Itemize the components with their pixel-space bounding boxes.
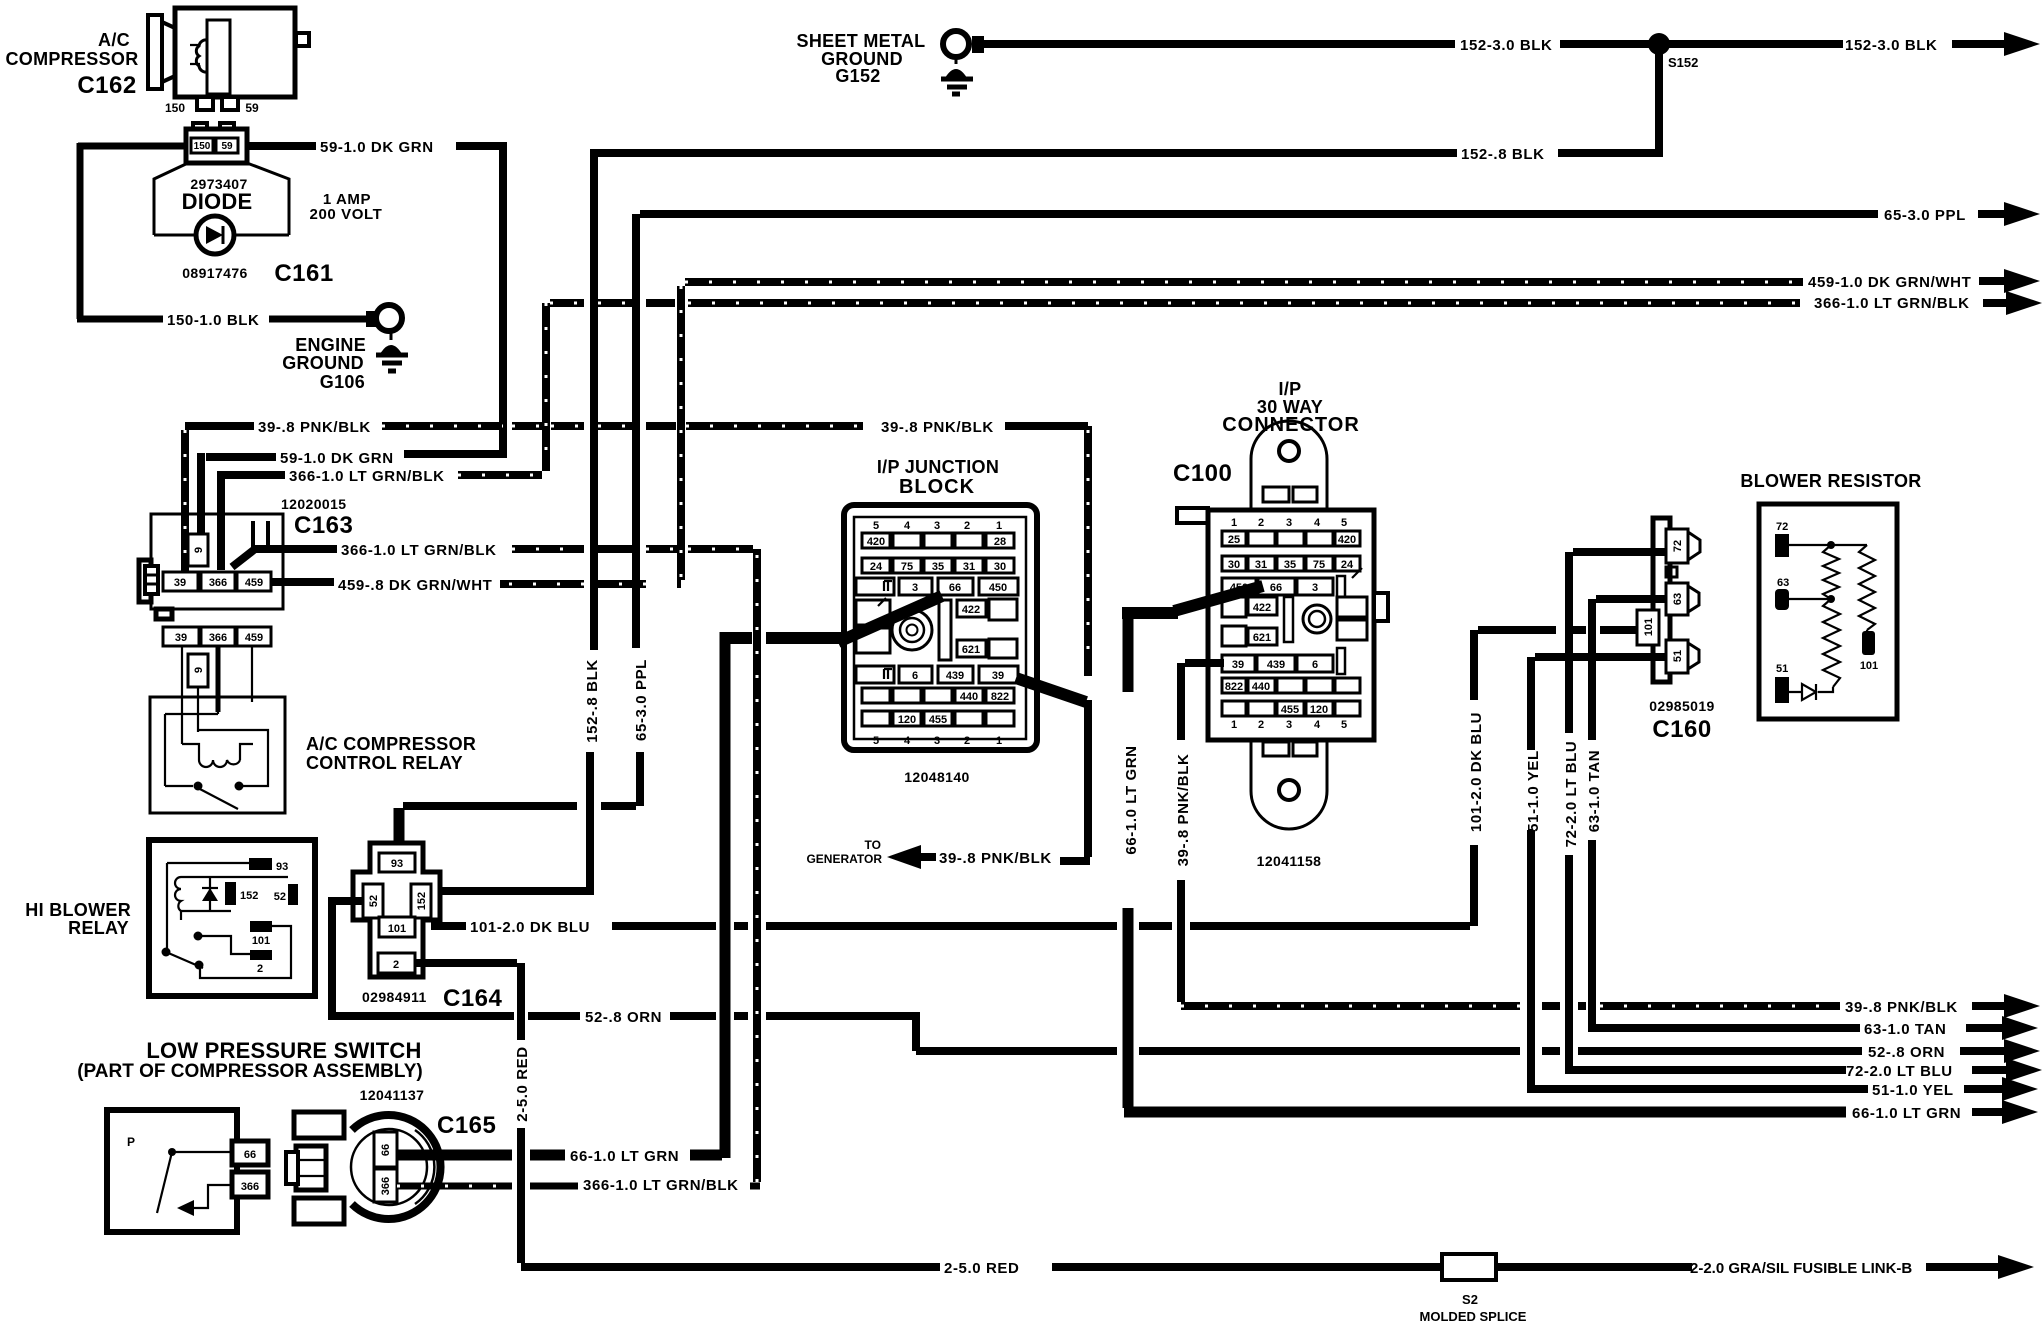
svg-text:52-.8 ORN: 52-.8 ORN	[1868, 1044, 1945, 1061]
splice S2 molded splice	[1442, 1254, 1496, 1280]
svg-text:9: 9	[193, 667, 205, 673]
wire 39 from C100 pin	[1181, 663, 1224, 1002]
svg-text:30: 30	[994, 561, 1006, 573]
svg-text:366: 366	[241, 1181, 259, 1193]
wire 152-.8 BLK	[433, 44, 1663, 891]
C163 mating half pin 459	[237, 627, 271, 646]
svg-text:366: 366	[209, 632, 227, 644]
svg-text:459: 459	[245, 577, 263, 589]
svg-text:101: 101	[388, 923, 406, 935]
C100 fuse row C	[1222, 568, 1362, 606]
svg-text:440: 440	[1252, 681, 1270, 693]
svg-text:2-5.0 RED: 2-5.0 RED	[944, 1260, 1019, 1277]
C100 column numbers bottom	[1231, 719, 1347, 731]
svg-text:366: 366	[380, 1177, 392, 1195]
svg-text:93: 93	[276, 861, 288, 873]
wire 59-1.0 DK GRN from C161	[201, 142, 507, 536]
svg-text:51-1.0 YEL: 51-1.0 YEL	[1872, 1082, 1954, 1099]
svg-text:RELAY: RELAY	[68, 918, 129, 938]
svg-text:93: 93	[391, 858, 403, 870]
svg-text:51: 51	[1672, 650, 1684, 662]
HI blower relay internals	[162, 858, 299, 978]
svg-text:25: 25	[1228, 534, 1240, 546]
svg-text:HI BLOWER: HI BLOWER	[25, 900, 131, 920]
arrow 52-.8 ORN	[2004, 1039, 2040, 1063]
svg-text:28: 28	[994, 536, 1006, 548]
svg-text:2: 2	[393, 959, 399, 971]
junction block middle section	[856, 598, 1017, 660]
svg-text:439: 439	[1267, 659, 1285, 671]
C100 fuse row A	[1222, 531, 1360, 546]
svg-text:1: 1	[996, 735, 1002, 747]
wire 72-2.0 LT BLU	[1565, 552, 1846, 1070]
junction block column numbers top	[873, 520, 1002, 532]
svg-text:65-3.0 PPL: 65-3.0 PPL	[1884, 207, 1966, 224]
svg-text:420: 420	[1338, 534, 1356, 546]
svg-text:MOLDED SPLICE: MOLDED SPLICE	[1420, 1309, 1527, 1324]
C100 middle section	[1222, 597, 1367, 646]
svg-text:39: 39	[175, 632, 187, 644]
svg-text:51: 51	[1776, 663, 1788, 675]
svg-text:59-1.0 DK GRN: 59-1.0 DK GRN	[280, 450, 394, 467]
wire 366-1.0 LT GRN/BLK from C165	[397, 1183, 760, 1190]
wire 150 to ring terminal	[269, 316, 370, 323]
wire 459-.8 DK GRN/WHT at C163	[271, 578, 334, 586]
svg-text:C164: C164	[443, 985, 503, 1012]
svg-text:440: 440	[960, 691, 978, 703]
svg-text:C163: C163	[294, 512, 353, 539]
svg-text:9: 9	[193, 547, 205, 553]
wire 459-1.0 DK GRN/WHT (top run)	[500, 282, 1803, 584]
junction block fuse row D	[856, 666, 1018, 683]
svg-text:CONNECTOR: CONNECTOR	[1222, 414, 1360, 436]
svg-text:150-1.0 BLK: 150-1.0 BLK	[167, 312, 259, 329]
svg-text:02984911: 02984911	[362, 989, 427, 1005]
svg-text:152-3.0 BLK: 152-3.0 BLK	[1845, 37, 1937, 54]
C163 pin 459	[237, 572, 271, 591]
connector C100 top tab	[1251, 421, 1327, 512]
arrow 2-2.0 GRA/SIL	[1998, 1255, 2034, 1279]
wire 39 out of junction block	[1016, 678, 1086, 702]
svg-text:1: 1	[1231, 719, 1237, 731]
svg-text:72-2.0 LT BLU: 72-2.0 LT BLU	[1563, 741, 1580, 848]
svg-text:200 VOLT: 200 VOLT	[310, 206, 383, 223]
svg-text:101-2.0 DK BLU: 101-2.0 DK BLU	[1468, 712, 1485, 832]
svg-text:C161: C161	[274, 260, 333, 287]
A/C compressor control relay box	[150, 697, 285, 813]
svg-text:39: 39	[992, 670, 1004, 682]
svg-text:59: 59	[245, 101, 259, 115]
svg-text:621: 621	[962, 644, 980, 656]
diode 2973407 C161	[154, 163, 382, 287]
svg-text:101-2.0 DK BLU: 101-2.0 DK BLU	[470, 919, 590, 936]
svg-text:BLOCK: BLOCK	[899, 476, 975, 498]
svg-text:420: 420	[867, 536, 885, 548]
svg-text:39-.8 PNK/BLK: 39-.8 PNK/BLK	[939, 850, 1052, 867]
svg-text:1: 1	[996, 520, 1002, 532]
svg-text:4: 4	[1314, 719, 1321, 731]
svg-text:63-1.0 TAN: 63-1.0 TAN	[1864, 1021, 1946, 1038]
svg-text:31: 31	[963, 561, 975, 573]
svg-text:ENGINE: ENGINE	[295, 335, 366, 355]
svg-text:C162: C162	[77, 72, 136, 99]
sheet metal ground G152 symbol	[941, 57, 973, 94]
low pressure switch pin 66	[232, 1141, 268, 1165]
svg-text:I/P JUNCTION: I/P JUNCTION	[877, 457, 999, 477]
svg-text:152-.8 BLK: 152-.8 BLK	[584, 659, 601, 743]
C100 fuse row E	[1222, 678, 1360, 693]
svg-text:3: 3	[912, 582, 918, 594]
svg-text:120: 120	[898, 714, 916, 726]
svg-text:455: 455	[1281, 704, 1299, 716]
svg-text:12048140: 12048140	[904, 769, 970, 785]
connector C163 housing	[139, 514, 283, 619]
svg-text:101: 101	[1643, 618, 1655, 636]
svg-text:2: 2	[1258, 719, 1264, 731]
C100 fuse row D	[1222, 648, 1345, 674]
junction block fuse row E	[862, 688, 1014, 703]
wire 39-.8 PNK/BLK (top run)	[185, 426, 1088, 676]
svg-text:366: 366	[209, 577, 227, 589]
svg-text:152-3.0 BLK: 152-3.0 BLK	[1460, 37, 1552, 54]
svg-text:02985019: 02985019	[1649, 698, 1715, 714]
arrow 152-3.0 BLK	[2004, 32, 2040, 56]
C100 fuse row B	[1222, 556, 1360, 571]
connector C100 body	[1177, 508, 1388, 740]
svg-text:101: 101	[1860, 660, 1878, 672]
C165 pin 66	[374, 1132, 397, 1167]
svg-text:30: 30	[1228, 559, 1240, 571]
C163 mating half pin 366	[201, 627, 235, 646]
low pressure switch pin 366	[232, 1172, 268, 1197]
svg-text:101: 101	[252, 935, 270, 947]
svg-text:08917476: 08917476	[182, 265, 248, 281]
svg-text:422: 422	[1253, 602, 1271, 614]
svg-text:63: 63	[1672, 593, 1684, 605]
junction block fuse row A	[862, 533, 1014, 548]
svg-text:COMPRESSOR: COMPRESSOR	[5, 49, 138, 69]
low pressure switch box	[107, 1110, 237, 1232]
connector C100 bottom tab	[1251, 738, 1327, 829]
svg-text:2: 2	[1258, 517, 1264, 529]
svg-text:2: 2	[964, 520, 970, 532]
svg-text:52: 52	[368, 895, 380, 907]
wire 66-1.0 LT GRN from C165	[397, 632, 725, 1158]
svg-text:3: 3	[1286, 517, 1292, 529]
svg-text:SHEET METAL: SHEET METAL	[797, 31, 926, 51]
wire 65-3.0 PPL	[403, 214, 1878, 806]
wire 366-1.0 LT GRN/BLK (C163 middle run)	[232, 549, 757, 1182]
wire 366-1.0 LT GRN/BLK (C163 upper)	[221, 471, 542, 570]
svg-text:DIODE: DIODE	[182, 189, 253, 214]
svg-text:24: 24	[870, 561, 883, 573]
svg-text:GROUND: GROUND	[282, 353, 364, 373]
svg-text:39-.8 PNK/BLK: 39-.8 PNK/BLK	[1845, 999, 1958, 1016]
svg-text:366-1.0 LT GRN/BLK: 366-1.0 LT GRN/BLK	[289, 468, 445, 485]
svg-text:455: 455	[929, 714, 947, 726]
svg-text:459-.8 DK GRN/WHT: 459-.8 DK GRN/WHT	[338, 577, 492, 594]
svg-text:C165: C165	[437, 1112, 496, 1139]
svg-text:120: 120	[1310, 704, 1328, 716]
connector C161	[186, 123, 247, 163]
svg-text:4: 4	[904, 520, 911, 532]
arrow 63-1.0 TAN	[2002, 1016, 2038, 1040]
svg-text:5: 5	[1341, 719, 1347, 731]
svg-text:152: 152	[416, 892, 428, 910]
svg-text:CONTROL RELAY: CONTROL RELAY	[306, 753, 463, 773]
C163 mating half pin 39	[163, 627, 199, 646]
junction block column numbers bottom	[873, 735, 1002, 747]
svg-text:450: 450	[989, 582, 1007, 594]
svg-text:66-1.0 LT GRN: 66-1.0 LT GRN	[1852, 1105, 1961, 1122]
svg-text:39-.8 PNK/BLK: 39-.8 PNK/BLK	[258, 419, 371, 436]
C163 pin 39	[163, 572, 198, 591]
wire 63-1.0 TAN	[1588, 599, 1860, 1028]
A/C compressor C162 label	[5, 30, 138, 99]
svg-text:12041137: 12041137	[360, 1087, 425, 1103]
svg-text:59-1.0 DK GRN: 59-1.0 DK GRN	[320, 139, 434, 156]
wire 152-3.0 BLK	[984, 40, 2006, 48]
svg-text:51-1.0 YEL: 51-1.0 YEL	[1525, 750, 1542, 832]
svg-text:366-1.0 LT GRN/BLK: 366-1.0 LT GRN/BLK	[583, 1177, 739, 1194]
wires from C163 pins to A/C relay	[182, 646, 252, 744]
svg-text:5: 5	[873, 735, 879, 747]
svg-text:12020015: 12020015	[281, 496, 347, 512]
svg-text:(PART OF COMPRESSOR ASSEMBLY): (PART OF COMPRESSOR ASSEMBLY)	[77, 1061, 423, 1082]
svg-text:72-2.0 LT BLU: 72-2.0 LT BLU	[1846, 1063, 1953, 1080]
splice S152	[1648, 33, 1670, 55]
svg-text:39-.8 PNK/BLK: 39-.8 PNK/BLK	[1175, 754, 1192, 867]
C165 shell	[286, 1112, 344, 1224]
svg-text:52: 52	[274, 891, 286, 903]
svg-text:3: 3	[1312, 582, 1318, 594]
svg-text:1: 1	[1231, 517, 1237, 529]
svg-text:66: 66	[244, 1149, 256, 1161]
svg-text:2: 2	[257, 963, 263, 975]
C165 pin 366	[374, 1169, 397, 1202]
svg-text:S2: S2	[1462, 1292, 1478, 1307]
svg-text:6: 6	[912, 670, 918, 682]
wire 66 into junction block fuse 66	[725, 596, 942, 642]
svg-text:366-1.0 LT GRN/BLK: 366-1.0 LT GRN/BLK	[1814, 295, 1970, 312]
connector C165 ring	[351, 1115, 441, 1219]
wire 52-.8 ORN from C164	[328, 897, 1862, 1051]
arrow 65-3.0 PPL	[2004, 202, 2040, 226]
svg-text:66: 66	[1270, 582, 1282, 594]
wire 2-5.0 RED from C164	[415, 963, 1444, 1267]
svg-text:4: 4	[1314, 517, 1321, 529]
arrow 366-1.0 LT GRN/BLK	[2006, 291, 2042, 315]
svg-text:12041158: 12041158	[1257, 853, 1322, 869]
C163 pin 366	[201, 572, 235, 591]
svg-text:75: 75	[1313, 559, 1325, 571]
wire 51-1.0 YEL	[1527, 657, 1868, 1089]
svg-text:152: 152	[240, 890, 258, 902]
svg-text:35: 35	[932, 561, 944, 573]
connector C164 body	[353, 843, 440, 977]
svg-text:459-1.0 DK GRN/WHT: 459-1.0 DK GRN/WHT	[1808, 274, 1971, 291]
blower resistor box	[1759, 504, 1897, 719]
svg-text:2: 2	[964, 735, 970, 747]
svg-text:3: 3	[934, 735, 940, 747]
svg-text:G106: G106	[320, 372, 365, 392]
junction block fuse row F	[862, 711, 1014, 726]
G152 ring terminal	[943, 31, 984, 57]
svg-text:24: 24	[1341, 559, 1354, 571]
svg-text:822: 822	[1225, 681, 1243, 693]
svg-text:2-5.0 RED: 2-5.0 RED	[514, 1046, 531, 1121]
HI blower relay box	[149, 840, 315, 996]
svg-text:TO: TO	[865, 838, 881, 852]
wire 66-1.0 LT GRN vertical (C100 side)	[1123, 613, 1134, 1108]
svg-text:35: 35	[1284, 559, 1296, 571]
svg-text:5: 5	[873, 520, 879, 532]
svg-text:BLOWER RESISTOR: BLOWER RESISTOR	[1740, 471, 1921, 491]
svg-text:39-.8 PNK/BLK: 39-.8 PNK/BLK	[881, 419, 994, 436]
A/C relay switch	[165, 714, 268, 809]
svg-text:66: 66	[949, 582, 961, 594]
wire 101-2.0 DK BLU from C164	[431, 630, 1639, 926]
svg-text:I/P: I/P	[1279, 379, 1302, 399]
svg-text:GENERATOR: GENERATOR	[806, 852, 882, 866]
svg-text:75: 75	[901, 561, 913, 573]
svg-text:422: 422	[962, 604, 980, 616]
arrow 51-1.0 YEL	[2002, 1077, 2038, 1101]
svg-text:C100: C100	[1173, 460, 1232, 487]
wire stub to generator	[1060, 857, 1090, 865]
low pressure switch internals	[127, 1135, 232, 1216]
wire 2-2.0 GRA/SIL fusible link B	[1496, 1263, 2000, 1271]
svg-text:2-2.0 GRA/SIL FUSIBLE LINK-B: 2-2.0 GRA/SIL FUSIBLE LINK-B	[1690, 1260, 1912, 1277]
svg-text:P: P	[127, 1135, 135, 1149]
wire 150 from C161 to ground	[77, 143, 186, 319]
sheet metal ground G152 label	[797, 31, 926, 86]
ground G106 ring terminal	[366, 305, 402, 331]
svg-text:66-1.0 LT GRN: 66-1.0 LT GRN	[1123, 745, 1140, 854]
wire 39-.8 PNK/BLK bottom run	[1181, 1002, 1840, 1010]
svg-text:39: 39	[174, 577, 186, 589]
arrow 66-1.0 LT GRN	[2002, 1100, 2038, 1124]
svg-text:366-1.0 LT GRN/BLK: 366-1.0 LT GRN/BLK	[341, 542, 497, 559]
svg-text:4: 4	[904, 735, 911, 747]
svg-text:C160: C160	[1652, 716, 1711, 743]
arrow 39-.8 PNK/BLK	[2004, 994, 2040, 1018]
svg-text:66-1.0 LT GRN: 66-1.0 LT GRN	[570, 1148, 679, 1165]
A/C compressor motor symbol C162	[148, 8, 309, 110]
wire 366-1.0 LT GRN/BLK (top run)	[546, 303, 1800, 471]
C100 column numbers top	[1231, 517, 1347, 529]
svg-text:150: 150	[194, 141, 211, 152]
svg-text:72: 72	[1776, 521, 1788, 533]
junction block fuse row C	[856, 578, 1018, 595]
svg-text:65-3.0 PPL: 65-3.0 PPL	[633, 659, 650, 741]
svg-text:3: 3	[1286, 719, 1292, 731]
svg-text:G152: G152	[835, 66, 880, 86]
svg-text:63: 63	[1777, 577, 1789, 589]
svg-text:152-.8 BLK: 152-.8 BLK	[1461, 146, 1545, 163]
C163 mating half pin 9 box	[188, 654, 208, 687]
svg-text:6: 6	[1312, 659, 1318, 671]
svg-text:439: 439	[946, 670, 964, 682]
svg-text:S152: S152	[1668, 55, 1698, 70]
engine ground G106 symbol	[282, 331, 408, 392]
svg-text:A/C COMPRESSOR: A/C COMPRESSOR	[306, 734, 476, 754]
svg-text:31: 31	[1255, 559, 1267, 571]
svg-text:66: 66	[380, 1144, 392, 1156]
C163 pin 9 box	[188, 534, 208, 566]
svg-text:459: 459	[245, 632, 263, 644]
junction block fuse row B	[862, 558, 1014, 573]
svg-text:39: 39	[1232, 659, 1244, 671]
svg-text:A/C: A/C	[98, 30, 130, 50]
svg-text:621: 621	[1253, 632, 1271, 644]
wire 66 into C100	[1122, 586, 1263, 613]
arrow to generator	[887, 845, 921, 869]
svg-text:59: 59	[221, 141, 233, 152]
svg-text:3: 3	[934, 520, 940, 532]
connector C160 body	[1637, 518, 1700, 682]
svg-text:LOW PRESSURE SWITCH: LOW PRESSURE SWITCH	[146, 1038, 421, 1063]
blower resistor internals	[1775, 521, 1878, 703]
arrow 459-1.0 DK GRN/WHT	[2004, 269, 2040, 293]
svg-text:822: 822	[991, 691, 1009, 703]
svg-text:150: 150	[165, 101, 185, 115]
arrow 72-2.0 LT BLU	[2006, 1058, 2042, 1082]
I/P junction block outline	[844, 505, 1037, 750]
svg-text:72: 72	[1672, 540, 1684, 552]
wire 66-1.0 LT GRN bottom run	[1124, 1107, 1846, 1118]
svg-text:52-.8 ORN: 52-.8 ORN	[585, 1009, 662, 1026]
svg-text:5: 5	[1341, 517, 1347, 529]
A/C relay coil	[182, 744, 253, 767]
svg-text:63-1.0 TAN: 63-1.0 TAN	[1586, 750, 1603, 832]
C100 fuse row F	[1222, 701, 1360, 716]
